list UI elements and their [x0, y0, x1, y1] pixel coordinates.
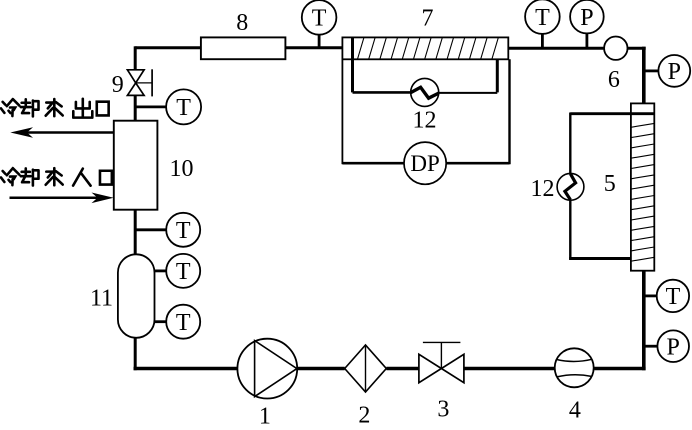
char chu [73, 99, 92, 118]
heater 8 [201, 37, 286, 59]
char que [21, 99, 39, 116]
DP transducer [404, 142, 446, 184]
sight glass 6 [604, 37, 627, 60]
char que [21, 168, 39, 185]
pipe left vertical top [134, 46, 137, 70]
pressure transducer 12 (on 5) [557, 173, 584, 200]
pipe between 8 and 7 [285, 46, 342, 49]
flowmeter 4 [555, 348, 594, 387]
tap line left of 7 [351, 37, 354, 92]
evaporator loop wire left upper [569, 113, 571, 174]
svg-text:P: P [668, 59, 681, 85]
svg-text:5: 5 [604, 171, 616, 197]
svg-text:T: T [176, 259, 191, 285]
pipe bottom run flowmeter-valve3 [464, 367, 555, 370]
pipe bottom run segment right [594, 367, 645, 370]
pipe bottom run valve3-filter [386, 367, 419, 370]
char ru [73, 169, 90, 186]
valve 3 [419, 342, 464, 382]
svg-text:T: T [312, 6, 327, 32]
evaporator 5 [631, 103, 654, 270]
DP loop wire left vertical [341, 59, 343, 164]
T gauge on top pipe (after 7) [525, 0, 560, 49]
cooling water inlet text [1, 168, 112, 185]
P gauge on top pipe [570, 0, 604, 49]
char shui [46, 99, 63, 116]
accumulator 11 [118, 254, 155, 337]
P gauge right vertical [644, 330, 689, 362]
pipe bottom run left [134, 367, 238, 370]
pipe top-left horizontal [135, 46, 201, 49]
DP loop wire bottom left [342, 162, 404, 165]
pipe right vertical upper [642, 47, 646, 104]
svg-text:12: 12 [413, 108, 437, 134]
svg-text:2: 2 [358, 403, 370, 426]
pump 1 [237, 339, 297, 399]
cooling water inlet arrow [10, 193, 114, 204]
P gauge right of top corner [644, 55, 690, 87]
cooling water outlet text [1, 99, 109, 118]
evaporator loop wire top [570, 112, 654, 115]
char kou [97, 102, 109, 116]
T gauge above accumulator [134, 213, 200, 247]
DP loop wire bottom right [446, 162, 510, 165]
pipe bottom run filter-pump [297, 367, 345, 370]
pipe condenser to accumulator [134, 210, 137, 256]
DP loop wire right vertical [508, 59, 510, 164]
pipe between 7 and sight glass 6 [508, 47, 604, 50]
pipe accumulator to bottom [134, 337, 137, 371]
evaporator loop wire bottom [569, 257, 631, 260]
T gauge on top pipe (after 8) [302, 0, 337, 49]
evaporator loop wire left lower [569, 200, 571, 260]
svg-text:P: P [580, 5, 593, 31]
svg-text:11: 11 [90, 286, 113, 312]
char kou [100, 171, 112, 185]
valve 9 [127, 69, 152, 96]
svg-text:9: 9 [112, 72, 124, 98]
T gauge accumulator upper [154, 254, 201, 288]
svg-text:T: T [535, 5, 550, 31]
svg-text:P: P [667, 334, 680, 360]
svg-text:T: T [176, 310, 191, 336]
svg-text:1: 1 [259, 404, 271, 426]
pipe valve9 to condenser [134, 95, 137, 121]
svg-text:DP: DP [410, 151, 439, 176]
svg-text:8: 8 [236, 10, 248, 36]
tap loop wire left [353, 91, 411, 94]
tap line right of 7 [496, 59, 499, 92]
char shui [46, 168, 63, 185]
filter 2 [345, 345, 387, 392]
char leng [1, 168, 19, 185]
pipe sight glass 6 to top-right corner [627, 47, 646, 50]
char leng (ice radical) [1, 99, 19, 116]
T gauge accumulator lower [154, 305, 201, 339]
svg-text:6: 6 [608, 67, 620, 93]
svg-text:12: 12 [531, 176, 555, 202]
svg-text:4: 4 [569, 398, 581, 424]
test section 7 [342, 37, 508, 59]
svg-text:T: T [176, 218, 191, 244]
T gauge right vertical [644, 280, 689, 312]
svg-text:7: 7 [422, 6, 434, 32]
svg-text:3: 3 [437, 397, 449, 423]
condenser 10 [114, 121, 158, 210]
pressure transducer 12 (on 7) [411, 78, 439, 106]
svg-text:T: T [666, 284, 681, 310]
pipe right vertical lower [642, 271, 646, 370]
T gauge below valve 9 [134, 89, 201, 124]
cooling water outlet arrow [10, 127, 114, 138]
tap loop wire right [439, 92, 498, 94]
svg-text:10: 10 [170, 156, 194, 182]
svg-text:T: T [176, 95, 191, 121]
